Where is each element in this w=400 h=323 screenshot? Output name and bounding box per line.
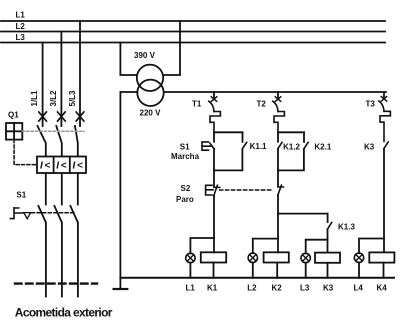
svg-text:K4: K4 bbox=[377, 284, 388, 293]
svg-text:L1: L1 bbox=[16, 11, 26, 20]
svg-text:S2: S2 bbox=[181, 184, 191, 193]
lamp L1 bbox=[186, 253, 195, 262]
wire bus L1 bbox=[1, 20, 385, 22]
svg-text:Paro: Paro bbox=[176, 195, 194, 204]
svg-text:I<: I< bbox=[56, 161, 66, 172]
switch S1 handle bbox=[10, 208, 24, 219]
svg-text:L4: L4 bbox=[354, 284, 364, 293]
svg-text:5/L3: 5/L3 bbox=[68, 90, 77, 107]
branch2 lamp node bbox=[253, 239, 278, 254]
thermal contact T1 blade bbox=[209, 101, 214, 111]
pushbutton S1 actuator bbox=[202, 142, 212, 150]
pushbutton S1 Marcha contact blade bbox=[210, 143, 214, 149]
svg-text:K1: K1 bbox=[207, 284, 218, 293]
wire tap pole1 from L3 bbox=[42, 43, 44, 127]
breaker X mark pole2 bbox=[58, 112, 66, 121]
svg-text:1/L1: 1/L1 bbox=[30, 90, 39, 107]
svg-text:Marcha: Marcha bbox=[171, 152, 200, 161]
breaker X mark pole1 bbox=[39, 112, 47, 121]
svg-text:L2: L2 bbox=[16, 22, 26, 31]
switch S1 blade pole3 bbox=[70, 206, 78, 297]
svg-text:Q1: Q1 bbox=[8, 111, 19, 120]
svg-text:S1: S1 bbox=[16, 190, 26, 199]
coil K1 bbox=[213, 238, 215, 252]
coil K4 bbox=[383, 239, 385, 253]
svg-text:K1.2: K1.2 bbox=[283, 143, 300, 152]
wire to bottom rail bbox=[359, 262, 384, 277]
wire branch1 bbox=[213, 132, 215, 141]
wire control bottom rail bbox=[120, 277, 394, 279]
wire to bottom rail bbox=[253, 263, 277, 278]
coil K2 bbox=[277, 239, 279, 253]
svg-text:K2.1: K2.1 bbox=[314, 143, 331, 152]
svg-text:I<: I< bbox=[73, 161, 83, 172]
branch3 lamp node bbox=[359, 239, 384, 254]
pushbutton S2 Paro contact bbox=[213, 170, 215, 186]
breaker blade pole2 bbox=[56, 126, 62, 157]
svg-text:390 V: 390 V bbox=[134, 51, 156, 60]
transformer T primary winding bbox=[137, 65, 163, 91]
Q1 linkage dashed gray bbox=[22, 130, 84, 132]
branch2 plug cross bbox=[275, 97, 280, 102]
K1.3 to lamp L3 node bbox=[306, 240, 328, 254]
svg-text:L3: L3 bbox=[16, 33, 26, 42]
contact K2.1 bbox=[303, 132, 305, 142]
thermal element T2 bbox=[274, 112, 284, 133]
node branch2 to K1.3 bbox=[278, 213, 328, 215]
branch3 plug cross bbox=[381, 97, 386, 102]
boundary dashed line bbox=[15, 282, 97, 284]
wire to bottom rail bbox=[190, 263, 213, 278]
lamp L4 bbox=[354, 253, 363, 262]
S2 linkage dashed bbox=[220, 189, 273, 191]
switch S1 blade pole2 bbox=[54, 206, 62, 297]
svg-text:K1.3: K1.3 bbox=[338, 222, 355, 231]
Q1 trip linkage dashed bbox=[14, 140, 37, 165]
wire tap pole2 from L2 bbox=[60, 32, 62, 127]
transformer primary feed right from L1 bbox=[163, 21, 180, 75]
svg-text:K1.1: K1.1 bbox=[250, 142, 267, 151]
svg-text:K2: K2 bbox=[272, 284, 283, 293]
wire tap pole3 from L1 bbox=[79, 21, 81, 126]
lamp L2 bbox=[248, 253, 257, 262]
breaker blade pole3 bbox=[75, 126, 78, 157]
wire bus L2 bbox=[1, 31, 385, 33]
ground bar bbox=[114, 288, 128, 290]
svg-text:220 V: 220 V bbox=[140, 109, 162, 118]
thermal element T1 bbox=[210, 112, 220, 133]
svg-text:L1: L1 bbox=[186, 284, 196, 293]
wire branch1 bbox=[213, 149, 215, 170]
transformer primary feed left from L3 bbox=[120, 43, 137, 76]
overload box I< bbox=[37, 157, 86, 174]
wire branch2 down bbox=[277, 214, 279, 239]
coil K3 bbox=[327, 240, 329, 253]
branch1 lamp node bbox=[190, 238, 214, 253]
wire control top rail bbox=[164, 91, 386, 93]
branch1 plug cross bbox=[211, 97, 216, 102]
svg-text:T1: T1 bbox=[192, 100, 202, 109]
contact K1.1 bbox=[242, 132, 244, 142]
thermal contact T3 blade bbox=[379, 101, 384, 111]
breaker Q1 operator box bbox=[6, 123, 22, 140]
contact S2 second pole on branch2 bbox=[277, 170, 279, 186]
svg-text:T2: T2 bbox=[257, 100, 267, 109]
node branch2 to K2.1 bbox=[278, 131, 304, 133]
svg-text:K3: K3 bbox=[323, 284, 334, 293]
lamp L3 bbox=[301, 253, 310, 262]
contact K3 bbox=[384, 142, 388, 149]
transformer T secondary winding bbox=[137, 80, 163, 106]
breaker blade pole1 bbox=[38, 126, 46, 157]
switch S1 handle triangle bbox=[24, 213, 31, 219]
svg-text:3/L2: 3/L2 bbox=[49, 90, 58, 107]
contact K1.2 bbox=[277, 132, 279, 141]
wire secondary left rail bbox=[120, 92, 137, 289]
svg-text:S1: S1 bbox=[180, 142, 190, 151]
svg-text:L2: L2 bbox=[247, 284, 257, 293]
contact K1.3 bbox=[327, 214, 329, 222]
wire pole2 below box bbox=[61, 173, 63, 205]
svg-text:T3: T3 bbox=[366, 100, 376, 109]
svg-text:Acometida exterior: Acometida exterior bbox=[15, 306, 113, 320]
node branch1 to K1.1 bbox=[214, 131, 243, 133]
switch S1 blade pole1 bbox=[38, 206, 46, 297]
breaker X mark pole3 bbox=[76, 112, 84, 121]
thermal element T3 bbox=[380, 111, 390, 141]
wire pole3 below box bbox=[77, 173, 79, 205]
svg-text:L3: L3 bbox=[300, 284, 310, 293]
thermal contact T2 blade bbox=[273, 101, 278, 111]
pushbutton S2 actuator bbox=[206, 185, 213, 195]
branch1 top stub bbox=[213, 92, 215, 97]
overload labels I< bbox=[40, 161, 83, 172]
wire to bottom rail bbox=[306, 263, 328, 278]
wire pole1 below box bbox=[45, 173, 47, 205]
branch2 top stub bbox=[277, 92, 279, 97]
svg-text:K3: K3 bbox=[364, 143, 375, 152]
svg-text:I<: I< bbox=[40, 161, 50, 172]
switch S1 linkage dashed bbox=[32, 212, 77, 214]
wire bus L3 bbox=[1, 42, 385, 44]
branch3 top stub bbox=[383, 92, 385, 97]
